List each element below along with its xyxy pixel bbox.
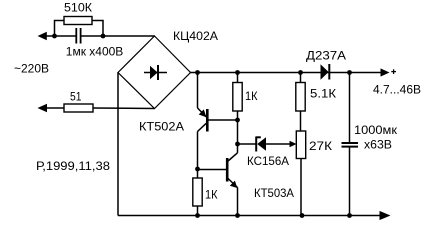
junction dot: KT502A base node [235,118,240,123]
svg-text:1К: 1К [245,89,258,103]
svg-text:КТ503А: КТ503А [254,186,294,200]
junction dot: 27K on bottom rail [300,213,305,218]
zener diode KS156A [238,137,292,152]
svg-text:КС156А: КС156А [247,154,289,168]
svg-text:~220В: ~220В [14,61,49,75]
wire: top input to bridge top corner [46,35,76,37]
junction dot: KT502A collector / KT503A base node [195,167,200,172]
svg-text:КЦ402А: КЦ402А [173,29,218,43]
wire: R1 left leg [55,21,65,37]
node B (junction dot right of R1/C1) [101,34,106,39]
junction dot: 1K lower on bottom rail [195,213,200,218]
wire: base node down to zener node [237,120,239,144]
wire: R1 right leg [92,21,103,37]
output terminal arrow (bottom right) [380,211,391,220]
node A (junction dot left of R1/C1) [52,34,57,39]
wire: R2 to bridge bottom corner [93,107,155,110]
svg-text:51: 51 [70,89,82,103]
junction dot: KT503A emitter on bottom rail [235,213,240,218]
output terminal arrow (top right) [381,68,390,76]
resistor 5.1K [296,73,305,132]
transistor KT502A (PNP) [198,73,238,170]
ground / negative bottom rail [118,215,383,217]
svg-text:1мк х400В: 1мк х400В [66,45,124,59]
svg-text:Р,1999,11,38: Р,1999,11,38 [36,159,110,173]
junction dot: capacitor column on top rail [347,70,352,75]
wire: bridge left corner down to ground rail [117,73,119,216]
svg-text:4.7...46В: 4.7...46В [373,82,421,96]
junction dot: capacitor on bottom rail [347,213,352,218]
svg-text:510К: 510К [64,1,92,15]
svg-text:Д237А: Д237А [306,49,346,63]
junction dot: emitter column on top rail [195,70,200,75]
junction dot: zener / KT503A collector node [235,142,240,147]
resistor 51 [64,104,93,112]
resistor 510K [64,17,92,25]
potentiometer wiper arrow into 27K [290,141,297,148]
bridge rectifier KTs402A diamond [118,36,191,109]
resistor 1K (lower, emitter resistor) [193,169,202,216]
wire: arrow to R2 [46,107,65,109]
svg-text:27К: 27К [309,139,332,153]
wire: positive top rail from bridge right corner to output [191,72,382,74]
svg-text:КТ502А: КТ502А [139,120,184,134]
junction dot: 1K column on top rail [235,70,240,75]
bridge internal diode symbol [144,65,167,80]
svg-text:1000мк: 1000мк [354,123,398,137]
svg-text:х63В: х63В [364,138,392,152]
transistor KT503A (NPN) [198,144,238,216]
capacitor 1000mk x63V [342,73,359,216]
input terminal arrow (bottom, ~220V line 2) [38,104,48,112]
plus polarity mark [391,69,396,74]
resistor 1K (upper, base of KT502A) [233,73,242,121]
junction dot: 5.1K column on top rail [298,70,303,75]
diode D237A [321,64,330,80]
svg-text:5.1К: 5.1К [310,86,336,100]
input terminal arrow (top, ~220V line 1) [38,32,47,40]
capacitor C1 1mk x400V plates [75,28,77,44]
potentiometer 27K [296,131,305,216]
svg-text:1К: 1К [205,187,218,201]
